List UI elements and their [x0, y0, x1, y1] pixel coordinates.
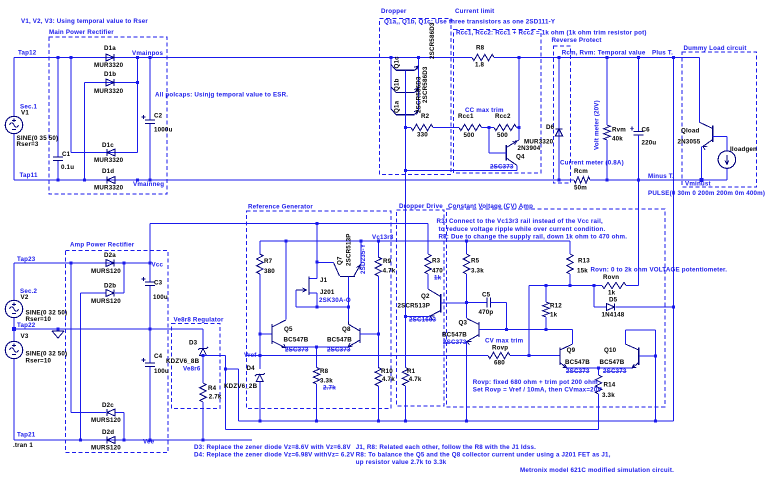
svg-text:Tap23: Tap23: [17, 256, 36, 263]
svg-text:D2d: D2d: [102, 429, 114, 436]
svg-text:Rser=3: Rser=3: [17, 141, 39, 148]
svg-text:BC547B: BC547B: [327, 337, 352, 344]
svg-text:680: 680: [494, 360, 505, 367]
svg-text:Current limit: Current limit: [455, 8, 494, 15]
svg-text:Q1a,, Q1b, Q1c: Use three tran: Q1a,, Q1b, Q1c: Use three transistors as…: [384, 19, 556, 26]
svg-text:Reverse Protect: Reverse Protect: [552, 37, 602, 44]
svg-text:SINE(0 32 50): SINE(0 32 50): [26, 351, 68, 358]
svg-text:220u: 220u: [642, 140, 657, 147]
svg-text:100u: 100u: [153, 294, 168, 301]
svg-text:D4: D4: [247, 365, 256, 372]
svg-text:4.7k: 4.7k: [383, 268, 396, 275]
svg-text:R12: R12: [550, 303, 562, 310]
svg-text:to reduce voltage ripple while: to reduce voltage ripple while over curr…: [439, 226, 606, 233]
svg-text:1000u: 1000u: [154, 127, 173, 134]
svg-text:3.3k: 3.3k: [471, 268, 484, 275]
svg-text:Amp Power Rectifier: Amp Power Rectifier: [70, 242, 135, 249]
svg-text:2N3055: 2N3055: [678, 139, 701, 146]
svg-text:R8: R8: [320, 368, 329, 375]
svg-text:Q8: Q8: [342, 326, 351, 333]
svg-text:BC547B: BC547B: [565, 359, 590, 366]
svg-text:Constant Voltage (CV) Amp: Constant Voltage (CV) Amp: [448, 203, 533, 210]
svg-text:C5: C5: [482, 292, 491, 299]
svg-text:2SCR513P: 2SCR513P: [398, 303, 431, 310]
svg-text:Rcm: Rcm: [574, 168, 588, 175]
svg-text:BC547B: BC547B: [600, 359, 625, 366]
svg-text:MURS120: MURS120: [91, 298, 121, 305]
svg-text:MUR3320: MUR3320: [94, 185, 124, 192]
svg-text:2SC373: 2SC373: [327, 347, 351, 354]
svg-text:Iloadgen: Iloadgen: [730, 146, 757, 153]
svg-text:500: 500: [497, 132, 508, 139]
svg-text:2SC1663: 2SC1663: [409, 317, 437, 324]
svg-text:4.7k: 4.7k: [409, 376, 422, 383]
svg-text:J1: J1: [320, 277, 328, 284]
svg-text:BC547B: BC547B: [442, 332, 467, 339]
svg-text:Tap11: Tap11: [20, 172, 38, 179]
svg-text:Tap12: Tap12: [18, 50, 37, 57]
svg-text:Vee: Vee: [143, 439, 155, 446]
svg-text:V2: V2: [21, 294, 29, 301]
svg-text:Volt meter (20V): Volt meter (20V): [594, 100, 601, 150]
svg-text:Vc13r3: Vc13r3: [372, 234, 394, 241]
svg-text:up resistor value 2.7k to 3.3k: up resistor value 2.7k to 3.3k: [356, 459, 447, 466]
svg-text:Vmainpos: Vmainpos: [132, 50, 164, 57]
svg-text:J201: J201: [320, 289, 335, 296]
svg-text:MUR3320: MUR3320: [94, 157, 124, 164]
svg-text:R4: R4: [208, 385, 217, 392]
svg-text:Rovn: Rovn: [603, 274, 619, 281]
svg-text:2SD235-Y: 2SD235-Y: [360, 243, 367, 274]
svg-text:CV max trim: CV max trim: [485, 338, 524, 345]
svg-text:3.3k: 3.3k: [320, 378, 333, 385]
svg-text:Q3: Q3: [459, 320, 468, 327]
svg-text:KDZV6_8B: KDZV6_8B: [166, 358, 200, 365]
svg-text:C1: C1: [62, 151, 71, 158]
svg-text:2SC373: 2SC373: [603, 368, 627, 375]
svg-text:Rcc2: Rcc2: [495, 113, 511, 120]
svg-text:C2: C2: [154, 113, 163, 120]
svg-text:R1: R1: [407, 368, 416, 375]
svg-text:R14: R14: [604, 382, 616, 389]
svg-text:2SC373: 2SC373: [285, 347, 309, 354]
svg-text:R8: To balance the Q5 and the: R8: To balance the Q5 and the Q8 collect…: [356, 452, 611, 459]
svg-text:Qload: Qload: [681, 128, 700, 135]
svg-text:D1c: D1c: [102, 142, 114, 149]
svg-text:D3: D3: [189, 340, 198, 347]
svg-text:V1, V2, V3: Using temporal val: V1, V2, V3: Using temporal value to Rser: [21, 18, 148, 25]
svg-text:Tap22: Tap22: [17, 322, 36, 329]
svg-text:C6: C6: [642, 127, 651, 134]
svg-text:.tran 1: .tran 1: [13, 442, 33, 449]
svg-text:MURS120: MURS120: [91, 445, 121, 452]
svg-text:500: 500: [464, 132, 475, 139]
svg-text:Plus T.: Plus T.: [652, 50, 673, 57]
svg-text:C3: C3: [154, 280, 163, 287]
svg-text:D2b: D2b: [104, 283, 116, 290]
svg-text:MUR3320: MUR3320: [94, 88, 124, 95]
svg-text:Set Rovp = Vref / 10mA, then C: Set Rovp = Vref / 10mA, then CVmax=20V: [473, 387, 603, 394]
svg-text:Tap21: Tap21: [17, 432, 36, 439]
svg-text:MUR3320: MUR3320: [94, 62, 124, 69]
svg-text:D3: Replace the zener diode Vz: D3: Replace the zener diode Vz=8.6V with…: [194, 444, 351, 451]
svg-text:D5: D5: [609, 297, 618, 304]
svg-text:2SCR586D3: 2SCR586D3: [422, 66, 429, 103]
svg-text:Rvm: Rvm: [612, 127, 626, 134]
svg-text:Ve8r6: Ve8r6: [183, 366, 201, 373]
svg-text:2SC373: 2SC373: [443, 339, 467, 346]
svg-text:V1: V1: [21, 110, 29, 117]
svg-text:PULSE(0 30m 0 200m 200m 0m 400: PULSE(0 30m 0 200m 200m 0m 400m): [648, 190, 765, 197]
svg-text:D6: D6: [546, 124, 555, 131]
svg-text:Q2: Q2: [421, 293, 430, 300]
svg-text:Rovp: Rovp: [492, 345, 508, 352]
svg-text:100u: 100u: [154, 368, 169, 375]
svg-text:Vminust: Vminust: [685, 181, 711, 188]
svg-text:Rser=10: Rser=10: [26, 358, 52, 365]
svg-text:R3: R3: [432, 258, 441, 265]
svg-text:2.7k: 2.7k: [323, 385, 336, 392]
svg-text:4.7k: 4.7k: [382, 376, 395, 383]
svg-text:Main Power Rectifier: Main Power Rectifier: [49, 29, 114, 36]
svg-text:470: 470: [432, 268, 443, 275]
svg-text:Minus T.: Minus T.: [648, 173, 674, 180]
svg-text:Q10: Q10: [604, 347, 617, 354]
svg-text:15k: 15k: [577, 268, 588, 275]
svg-text:D4: Replace the zener diode Vz: D4: Replace the zener diode Vz=6.98V wit…: [194, 452, 355, 459]
svg-text:C4: C4: [154, 353, 163, 360]
svg-text:Q1c: Q1c: [394, 56, 401, 69]
svg-text:Vcc: Vcc: [152, 262, 164, 269]
svg-text:50m: 50m: [574, 185, 587, 192]
svg-text:2SK30A-O: 2SK30A-O: [319, 297, 351, 304]
svg-text:Metronix model 621C modified s: Metronix model 621C modified simulation …: [520, 467, 674, 474]
svg-text:40k: 40k: [612, 136, 623, 143]
svg-text:R3: Due to change the supply r: R3: Due to change the supply rail, down …: [439, 234, 628, 241]
svg-text:R13: R13: [578, 258, 590, 265]
svg-text:Dummy Load circuit: Dummy Load circuit: [684, 45, 747, 52]
svg-text:3.3k: 3.3k: [602, 392, 615, 399]
svg-text:Rser=10: Rser=10: [26, 316, 52, 323]
svg-text:BC547B: BC547B: [284, 337, 309, 344]
svg-text:R7: R7: [264, 258, 273, 265]
svg-text:R2: R2: [421, 113, 430, 120]
svg-text:D1b: D1b: [104, 71, 116, 78]
svg-text:Q1b: Q1b: [394, 78, 401, 91]
svg-text:Dropper: Dropper: [381, 8, 407, 15]
svg-text:Q5: Q5: [284, 326, 293, 333]
svg-text:1k: 1k: [434, 275, 442, 282]
svg-text:1k: 1k: [550, 312, 558, 319]
svg-text:Vref: Vref: [244, 352, 257, 359]
svg-text:330: 330: [417, 132, 428, 139]
svg-text:Q9: Q9: [567, 347, 576, 354]
svg-text:R9: R9: [383, 258, 392, 265]
svg-text:2N3904: 2N3904: [518, 145, 541, 152]
svg-text:2SC373: 2SC373: [566, 368, 590, 375]
svg-text:KDZV6_2B: KDZV6_2B: [224, 383, 258, 390]
svg-text:Rovn: 0 to 2k ohm VOLTAGE pote: Rovn: 0 to 2k ohm VOLTAGE potentiometer.: [591, 267, 728, 274]
svg-text:J1, R8: Related each other, fo: J1, R8: Related each other, follow the R…: [356, 444, 536, 451]
svg-text:R3: Connect to the Vc13r3 rail: R3: Connect to the Vc13r3 rail instead o…: [437, 218, 603, 225]
svg-text:2SCR586D3: 2SCR586D3: [429, 22, 436, 59]
svg-text:Rcc1: Rcc1: [458, 113, 474, 120]
svg-text:Rcc1, Rcc2: Rcc1 + Rcc2 = 1k o: Rcc1, Rcc2: Rcc1 + Rcc2 = 1k ohm (1k ohm…: [456, 30, 647, 37]
svg-text:D2c: D2c: [102, 402, 114, 409]
svg-text:Ve8r8 Regulator: Ve8r8 Regulator: [174, 317, 225, 324]
svg-text:1.8: 1.8: [475, 62, 485, 69]
svg-text:Q4: Q4: [516, 154, 525, 161]
svg-text:D1a: D1a: [104, 45, 116, 52]
svg-text:D2a: D2a: [104, 252, 116, 259]
svg-text:1N4148: 1N4148: [602, 312, 625, 319]
svg-text:Q1a: Q1a: [394, 100, 401, 113]
svg-text:Rcm, Rvm: Temporal value: Rcm, Rvm: Temporal value: [562, 49, 646, 56]
svg-text:All polcaps: Usinjg temporal v: All polcaps: Usinjg temporal value to ES…: [155, 92, 288, 99]
svg-text:Rovp: fixed 680 ohm + trim pot: Rovp: fixed 680 ohm + trim pot 200 ohm: [473, 379, 598, 386]
svg-text:Q7: Q7: [337, 256, 344, 265]
svg-text:2SCR513P: 2SCR513P: [346, 233, 353, 266]
svg-text:MURS120: MURS120: [91, 268, 121, 275]
svg-text:470p: 470p: [479, 309, 494, 316]
svg-text:2SC373: 2SC373: [490, 164, 514, 171]
svg-text:R10: R10: [381, 368, 393, 375]
svg-text:Reference Generator: Reference Generator: [248, 204, 313, 211]
svg-text:R5: R5: [471, 258, 480, 265]
svg-text:380: 380: [264, 268, 275, 275]
svg-text:2SCR586D3: 2SCR586D3: [416, 76, 423, 113]
svg-text:MURS120: MURS120: [91, 417, 121, 424]
svg-text:Current meter (0.8A): Current meter (0.8A): [560, 160, 624, 167]
svg-text:V3: V3: [21, 333, 29, 340]
svg-text:0.1u: 0.1u: [61, 164, 74, 171]
svg-text:1k: 1k: [608, 290, 616, 297]
svg-text:Dropper Drive: Dropper Drive: [399, 203, 443, 210]
svg-text:Vmainneg: Vmainneg: [133, 181, 164, 188]
svg-text:2.7k: 2.7k: [209, 394, 222, 401]
svg-text:D1d: D1d: [102, 168, 114, 175]
svg-text:R8: R8: [476, 45, 485, 52]
